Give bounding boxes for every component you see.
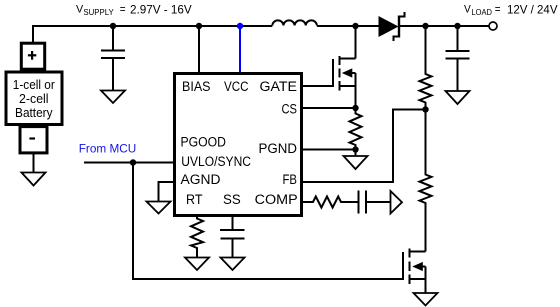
svg-text:RT: RT — [186, 192, 203, 207]
svg-text:VCC: VCC — [224, 79, 249, 94]
svg-text:PGND: PGND — [259, 141, 298, 156]
svg-text:Battery: Battery — [15, 106, 53, 120]
svg-text:2.97V - 16V: 2.97V - 16V — [130, 3, 192, 17]
svg-text:BIAS: BIAS — [182, 79, 211, 94]
svg-text:1-cell or: 1-cell or — [13, 78, 55, 92]
svg-text:FB: FB — [283, 172, 298, 187]
svg-text:COMP: COMP — [255, 192, 298, 207]
svg-text:PGOOD: PGOOD — [181, 135, 227, 150]
svg-text:=: = — [495, 2, 501, 16]
svg-text:GATE: GATE — [260, 79, 298, 94]
svg-text:=: = — [120, 2, 126, 16]
svg-text:From MCU: From MCU — [79, 144, 137, 156]
svg-text:LOAD: LOAD — [472, 8, 493, 17]
svg-text:SUPPLY: SUPPLY — [83, 8, 114, 17]
svg-text:AGND: AGND — [181, 172, 221, 187]
svg-text:12V / 24V: 12V / 24V — [507, 3, 558, 17]
svg-text:SS: SS — [223, 192, 241, 207]
svg-text:2-cell: 2-cell — [19, 92, 49, 106]
svg-text:V: V — [464, 4, 471, 16]
svg-text:UVLO/SYNC: UVLO/SYNC — [181, 154, 251, 169]
svg-text:CS: CS — [282, 102, 298, 117]
